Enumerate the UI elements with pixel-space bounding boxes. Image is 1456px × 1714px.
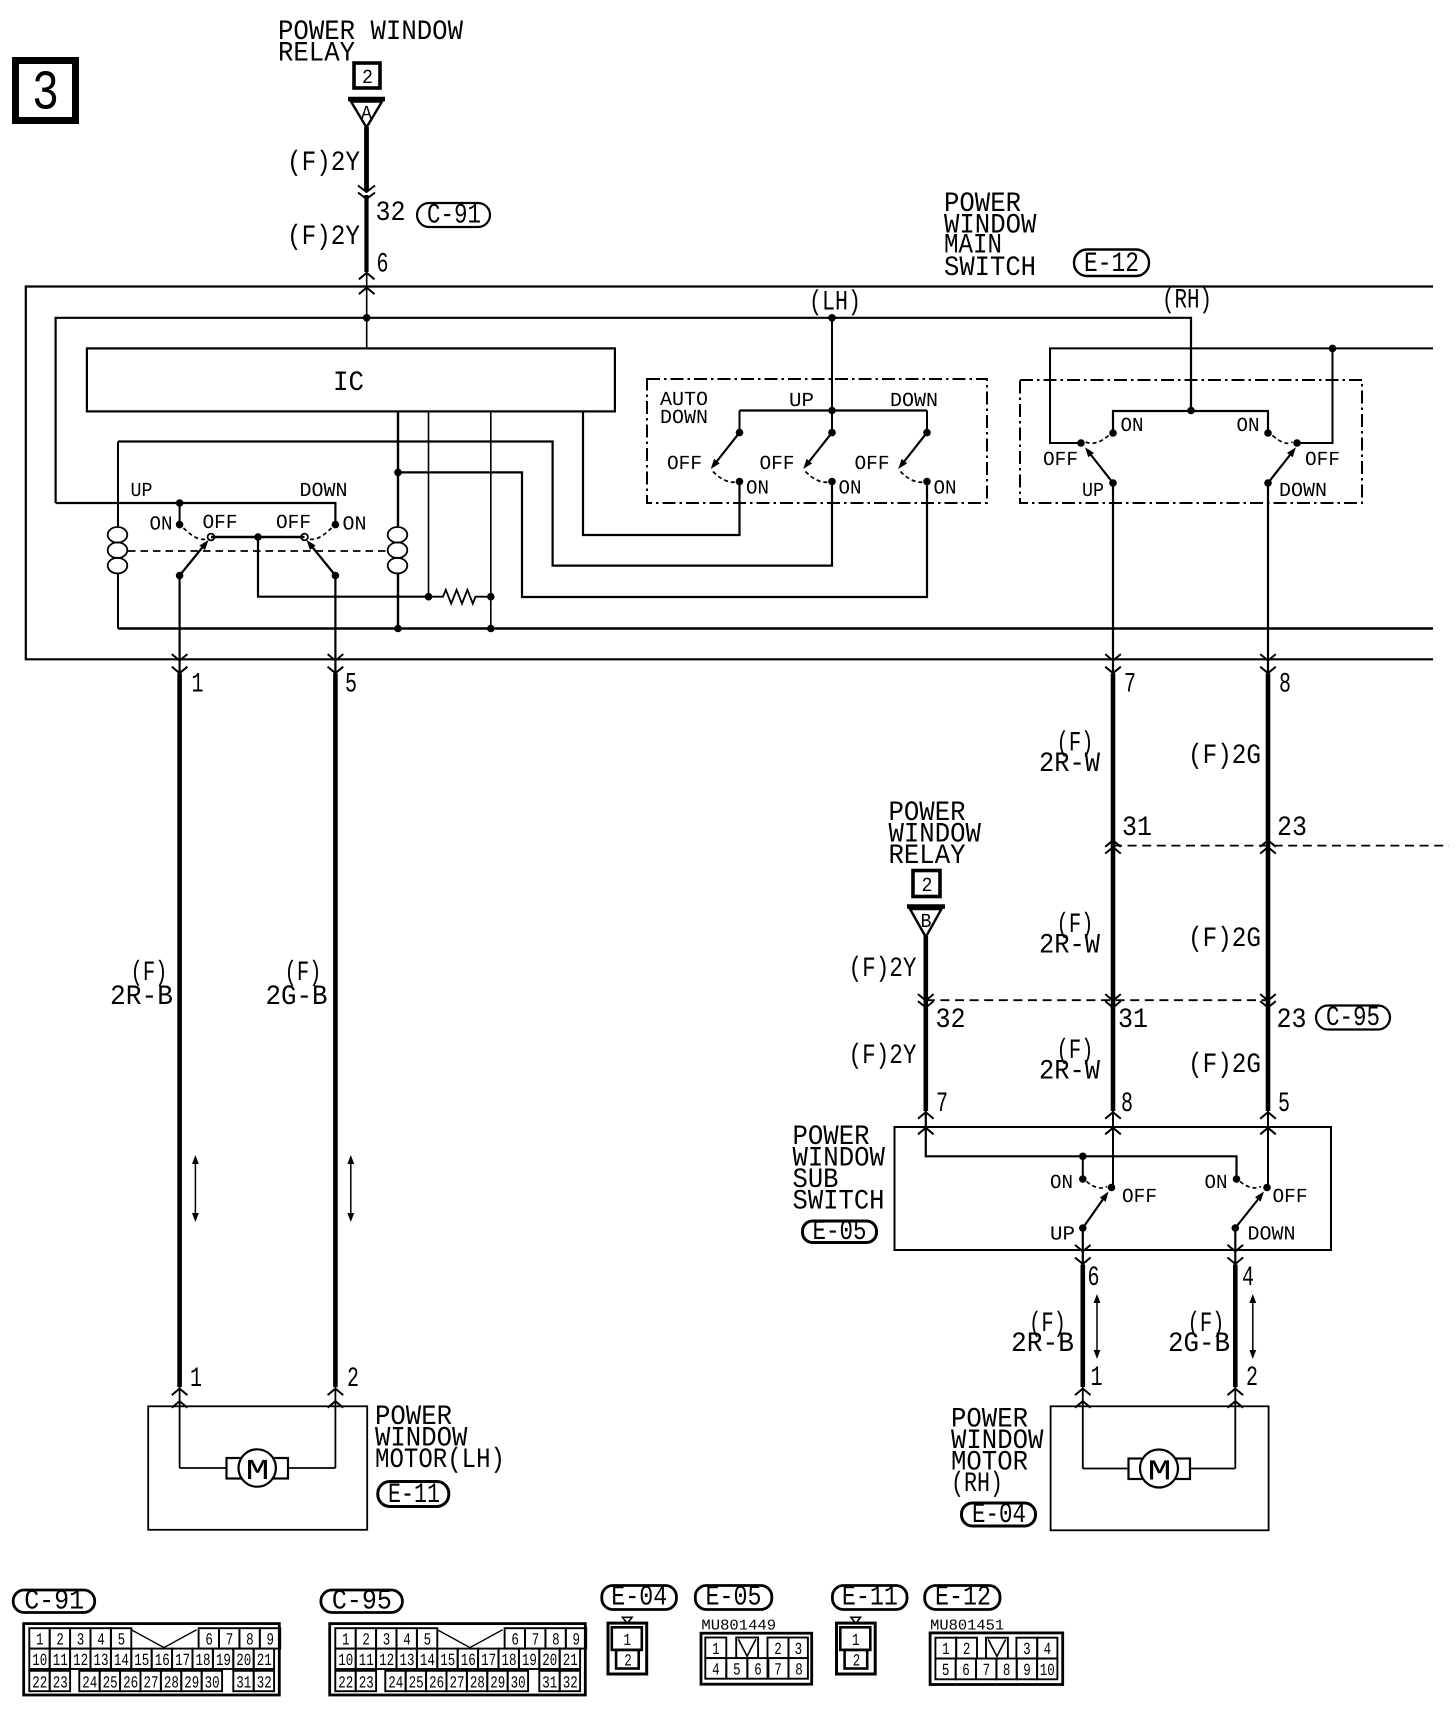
svg-text:30: 30 [205,1674,220,1693]
svg-text:(LH): (LH) [809,288,861,319]
svg-text:31: 31 [1118,1005,1148,1036]
connector E-11 pin box [851,1617,861,1623]
svg-text:SWITCH: SWITCH [793,1187,885,1218]
svg-text:14: 14 [420,1652,435,1671]
svg-text:3: 3 [32,62,59,126]
dashed connector line (31/23) [1113,845,1449,847]
svg-text:ON: ON [1237,415,1260,438]
svg-text:23: 23 [359,1674,374,1693]
svg-text:2R-W: 2R-W [1039,931,1100,962]
ON contact right [332,521,340,529]
svg-text:16: 16 [461,1652,476,1671]
svg-text:C-91: C-91 [24,1587,84,1618]
motor LH symbol [227,1458,242,1479]
svg-text:7: 7 [936,1089,948,1120]
power window motor LH box [148,1406,367,1530]
svg-text:12: 12 [379,1652,394,1671]
svg-text:21: 21 [257,1652,272,1671]
svg-text:1: 1 [1091,1363,1103,1394]
svg-text:(F)2Y: (F)2Y [287,148,360,179]
svg-text:DOWN: DOWN [1279,480,1327,503]
wire bar center tap to resistor [258,537,429,597]
direction arrow right2 [1252,1301,1254,1352]
svg-text:(F)2G: (F)2G [1188,741,1261,772]
motor RH symbol [1129,1459,1144,1480]
junction return line [1329,345,1337,353]
wire 2G-B thick (sub pin4 to motor RH) [1233,1265,1238,1388]
sub switch pin 8 entry chevrons [1105,1112,1121,1119]
junction bar center [254,533,262,541]
svg-text:2R-W: 2R-W [1039,749,1100,780]
ON contact RH-down [1264,429,1272,437]
svg-text:RELAY: RELAY [889,841,966,872]
LH bank top bar [740,409,928,411]
svg-text:32: 32 [376,198,406,229]
IC pin wire to left coil [397,412,399,527]
ON contact sub-down [1233,1175,1241,1183]
svg-text:10: 10 [1040,1662,1055,1681]
svg-text:17: 17 [481,1652,496,1671]
svg-text:25: 25 [103,1674,118,1693]
svg-text:(F)2Y: (F)2Y [287,222,360,253]
svg-text:13: 13 [400,1652,415,1671]
svg-text:11: 11 [359,1652,374,1671]
svg-text:1: 1 [624,1632,632,1651]
motor contact right (pin5) [332,572,340,580]
svg-text:30: 30 [511,1674,526,1693]
svg-text:32: 32 [936,1005,966,1036]
svg-text:E-11: E-11 [388,1480,440,1511]
wire sub pin6 output [1082,1228,1084,1265]
right relay coil [388,527,408,543]
svg-text:C-91: C-91 [427,201,481,232]
svg-text:OFF: OFF [1305,449,1340,472]
lever sub-down [1235,1195,1261,1228]
svg-text:25: 25 [409,1674,424,1693]
direction arrow right1 [1096,1301,1098,1352]
svg-text:7: 7 [774,1661,782,1680]
svg-text:2R-B: 2R-B [110,982,173,1013]
svg-text:22: 22 [338,1674,353,1693]
svg-text:8: 8 [1121,1089,1133,1120]
motor RH pin 1 entry chevrons [1075,1389,1091,1396]
svg-text:20: 20 [542,1652,557,1671]
svg-text:31: 31 [542,1674,557,1693]
svg-text:DOWN: DOWN [660,407,708,430]
wire IC sense to DOWN switch ON (y=472.4) [398,472,927,597]
C-91 stadium label [417,203,490,227]
svg-text:24: 24 [388,1674,403,1693]
svg-text:(F)2G: (F)2G [1188,1050,1261,1081]
svg-text:(F)2G: (F)2G [1188,924,1261,955]
wire stub to sub ON left [1082,1156,1084,1178]
svg-text:7: 7 [983,1662,991,1681]
page number box 3 [16,61,76,121]
svg-text:E-12: E-12 [935,1583,991,1614]
svg-text:2: 2 [922,875,933,898]
power window main switch box (open right edge) [26,287,1433,660]
svg-text:2: 2 [963,1641,971,1660]
pivot RH-up [1077,439,1085,447]
wire motor LH pin1 internal [179,1387,181,1468]
junction UP bus [176,499,184,507]
left relay coil [117,442,119,527]
svg-text:7: 7 [1124,670,1136,701]
svg-text:ON: ON [343,514,367,537]
IC pin wire to auto-down switch [583,412,740,536]
motor contact left (pin1) [176,572,184,580]
svg-text:5: 5 [942,1662,950,1681]
relay B triangle terminal [907,904,945,908]
svg-text:10: 10 [32,1652,47,1671]
svg-text:2G-B: 2G-B [1168,1329,1230,1360]
svg-text:2: 2 [1246,1363,1258,1394]
svg-text:C-95: C-95 [1326,1003,1380,1034]
connector C-95 pin table [330,1624,586,1695]
svg-text:29: 29 [184,1674,199,1693]
wire RH pivots to return line y=348 [1050,348,1433,443]
svg-text:SWITCH: SWITCH [944,253,1036,284]
wire sub pin4 output [1234,1228,1236,1265]
connector E-05 stadium label [695,1586,772,1610]
svg-text:2: 2 [347,1364,359,1395]
common bar between pivots [211,536,305,538]
svg-text:E-11: E-11 [842,1583,898,1614]
wire motor RH pin2 internal [1234,1387,1236,1469]
svg-text:19: 19 [522,1652,537,1671]
svg-text:OFF: OFF [760,453,795,476]
svg-text:ON: ON [1050,1172,1073,1195]
connector E-11 stadium label [832,1586,907,1610]
svg-text:ON: ON [934,478,957,501]
svg-text:23: 23 [53,1674,68,1693]
wire pin8 output [1267,483,1269,674]
svg-text:8: 8 [795,1661,803,1680]
DOWN output sub [1232,1224,1240,1232]
svg-text:8: 8 [1279,670,1291,701]
chevrons at 23 crossing [1260,840,1276,847]
lever RH-down [1268,451,1294,484]
svg-text:OFF: OFF [1273,1186,1308,1209]
svg-text:DOWN: DOWN [300,480,348,503]
svg-text:E-04: E-04 [611,1583,667,1614]
svg-text:MU801449: MU801449 [701,1617,776,1634]
svg-text:2R-W: 2R-W [1039,1057,1100,1088]
svg-text:28: 28 [164,1674,179,1693]
svg-text:32: 32 [563,1674,578,1693]
power window sub switch box [895,1127,1332,1250]
svg-text:A: A [361,103,372,126]
wire stub to left ON contact [179,503,181,523]
svg-text:23: 23 [1277,813,1307,844]
svg-text:ON: ON [746,478,769,501]
svg-text:3: 3 [795,1641,803,1660]
ON contact sub-up [1079,1175,1087,1183]
mechanical link dashed line [128,550,387,552]
wire 2G thick (pin8 to sub switch pin5) [1266,674,1271,1112]
resistor [429,590,491,604]
svg-text:E-04: E-04 [972,1500,1026,1531]
svg-text:E-12: E-12 [1084,249,1139,280]
UP supply bus (y=503) [56,503,336,523]
lever sub-up [1083,1195,1106,1228]
svg-text:27: 27 [449,1674,464,1693]
svg-text:(RH): (RH) [1162,286,1212,317]
connector C-95 stadium label [321,1590,403,1613]
wire 2G-B thick (pin5 to motor LH) [333,674,338,1388]
connector E-04 pin box [623,1617,633,1623]
svg-text:C-95: C-95 [332,1587,392,1618]
svg-text:2R-B: 2R-B [1011,1329,1074,1360]
svg-text:22: 22 [32,1674,47,1693]
pin 7 exit connector chevrons [1105,654,1121,661]
svg-text:OFF: OFF [1122,1186,1157,1209]
svg-text:DOWN: DOWN [1248,1224,1296,1247]
svg-text:M: M [246,1455,270,1488]
svg-text:1: 1 [190,1364,202,1395]
junction LH riser [828,314,836,322]
svg-text:31: 31 [1122,813,1152,844]
svg-text:ON: ON [1121,415,1144,438]
wire pin7 into bus [926,1111,1237,1178]
IC pin wire to resistor left [428,412,430,597]
chevrons at 31 crossing (C-95) [1105,994,1121,1001]
LH bank up switch [831,411,833,432]
internal supply wire (pin6 bus, y=318) [56,318,1191,503]
svg-text:23: 23 [1277,1005,1307,1036]
sub switch pin 7 entry chevrons [918,1112,934,1119]
svg-text:6: 6 [754,1661,762,1680]
svg-text:1: 1 [942,1641,950,1660]
LH bank down switch [926,411,928,432]
svg-text:ON: ON [839,478,862,501]
pivot sub-up [1108,1184,1116,1192]
wire 2R-B thick (sub pin6 to motor RH) [1081,1265,1086,1388]
svg-text:4: 4 [1044,1641,1052,1660]
pivot RH-down [1293,439,1301,447]
RH switch dashed box [1020,380,1362,503]
svg-text:RELAY: RELAY [278,39,355,70]
IC box [87,348,615,411]
pivot contact right [301,534,308,541]
svg-text:27: 27 [143,1674,158,1693]
auto down dashed box [647,379,987,503]
DOWN output contact [1264,479,1272,487]
svg-text:OFF: OFF [203,512,238,535]
svg-text:6: 6 [377,250,389,281]
junction bar / riser [828,407,836,415]
svg-text:UP: UP [1050,1224,1075,1247]
svg-text:OFF: OFF [276,512,311,535]
dashed arc sub-down [1240,1182,1261,1188]
svg-text:24: 24 [82,1674,97,1693]
svg-text:9: 9 [1023,1662,1031,1681]
svg-text:3: 3 [1023,1641,1031,1660]
relay B terminal box 2 [913,871,940,897]
pin 1 exit connector chevrons [172,654,188,661]
svg-text:5: 5 [733,1661,741,1680]
svg-text:UP: UP [1082,480,1104,503]
svg-text:10: 10 [338,1652,353,1671]
svg-text:(F)2Y: (F)2Y [849,954,917,985]
svg-text:ON: ON [150,514,173,537]
svg-text:15: 15 [440,1652,455,1671]
ON contact left [176,521,184,529]
direction arrow left2 [350,1162,352,1215]
svg-text:17: 17 [175,1652,190,1671]
wire motor RH pin1 internal [1082,1387,1084,1469]
lever left switch [180,543,206,576]
svg-text:20: 20 [236,1652,251,1671]
svg-text:(RH): (RH) [951,1469,1003,1500]
svg-text:18: 18 [502,1652,517,1671]
svg-text:OFF: OFF [1043,449,1078,472]
chevrons at 32 crossing [918,994,934,1001]
connector E-04 stadium label [602,1586,677,1610]
dashed arc right switch [308,528,332,539]
pivot contact left [208,534,215,541]
E-04 stadium label [962,1503,1036,1526]
E-12 stadium label (top) [1074,250,1149,277]
wire pin 6 into main switch [366,272,368,348]
relay A terminal box 2 [354,63,380,88]
svg-text:2: 2 [853,1652,861,1671]
UP output sub [1079,1224,1087,1232]
wire pin8 to sub-up pivot [1112,1111,1114,1186]
junction pin6 / internal bus [363,314,371,322]
svg-text:32: 32 [257,1674,272,1693]
UP output contact [1109,479,1117,487]
dashed arc left switch [184,528,208,539]
dashed arc sub-up [1087,1182,1108,1188]
dashed arc RH-up [1086,436,1109,444]
connector C-91 splice chevrons [358,186,375,193]
pivot sub-down [1263,1184,1271,1192]
junction RH bar / riser [1187,407,1195,415]
svg-text:(F)2Y: (F)2Y [849,1041,917,1072]
svg-text:13: 13 [94,1652,109,1671]
svg-text:M: M [1148,1456,1172,1489]
relay A triangle terminal [348,97,385,101]
IC pin wire to resistor right / bus [490,412,492,629]
dashed connector line C-95 [926,999,1268,1001]
svg-text:1: 1 [712,1641,720,1660]
E-05 stadium label [803,1221,877,1243]
wire pin5 to sub-down pivot [1267,1111,1269,1186]
wire coil top loop to UP switch ON (y=441.5) [118,442,832,566]
svg-text:11: 11 [53,1652,68,1671]
svg-text:18: 18 [196,1652,211,1671]
svg-text:4: 4 [712,1661,720,1680]
svg-text:IC: IC [333,368,364,399]
pin 5 exit connector chevrons [328,654,344,661]
sub pin 6 exit chevrons [1075,1245,1091,1252]
junction coil line [394,469,402,477]
direction arrow left1 [194,1162,196,1215]
junction resistor left [425,593,433,601]
svg-text:19: 19 [216,1652,231,1671]
wire pin5 output [334,576,336,675]
svg-text:5: 5 [1278,1089,1290,1120]
connector C-91 pin table [24,1624,280,1695]
svg-text:OFF: OFF [667,453,702,476]
svg-text:28: 28 [470,1674,485,1693]
lever RH-up [1088,451,1114,484]
svg-text:B: B [921,911,932,934]
svg-text:26: 26 [429,1674,444,1693]
pin 8 exit connector chevrons [1260,654,1276,661]
wire LH riser [831,318,833,411]
chevrons at 31 crossing [1105,840,1121,847]
svg-text:E-05: E-05 [813,1217,867,1248]
svg-text:E-05: E-05 [706,1583,762,1614]
svg-text:1: 1 [192,670,204,701]
svg-text:29: 29 [490,1674,505,1693]
svg-text:OFF: OFF [855,453,890,476]
wire relay B down to sub switch [923,936,928,1111]
RH bank top bar [1113,411,1268,433]
svg-text:6: 6 [1088,1263,1100,1294]
svg-text:16: 16 [155,1652,170,1671]
ON contact RH-up [1109,429,1117,437]
svg-text:6: 6 [962,1662,970,1681]
svg-text:2: 2 [774,1641,782,1660]
wire pin1 output [179,576,181,675]
motor LH pin 1 entry chevrons [172,1389,188,1396]
svg-text:1: 1 [852,1632,860,1651]
svg-text:2G-B: 2G-B [266,982,328,1013]
wire 2R-W thick (pin7 to sub switch pin8) [1111,674,1116,1112]
svg-text:21: 21 [563,1652,578,1671]
pin 6 connector chevrons [359,273,375,280]
svg-text:31: 31 [236,1674,251,1693]
connector E-05 pin table [701,1633,812,1684]
svg-text:14: 14 [114,1652,129,1671]
dashed arc RH-down [1273,436,1293,444]
wire relay A to splice 32 [364,127,369,191]
svg-text:26: 26 [123,1674,138,1693]
wire 2R-B thick (pin1 to motor LH) [177,674,182,1388]
svg-text:2: 2 [362,67,373,90]
junction sub bus [1079,1153,1087,1161]
svg-text:2: 2 [624,1652,632,1671]
connector E-12 stadium label [925,1586,1000,1610]
svg-text:12: 12 [73,1652,88,1671]
E-11 stadium label [378,1482,449,1507]
motor LH pin 2 entry chevrons [328,1389,344,1396]
C-95 stadium label [1316,1006,1390,1030]
motor RH pin 2 entry chevrons [1228,1389,1244,1396]
LH bank auto-down switch [739,411,741,432]
junction resistor leg to bus [487,625,495,633]
junction resistor right [487,593,495,601]
wire pin7 output [1112,483,1114,674]
svg-text:UP: UP [131,480,153,503]
svg-text:4: 4 [1242,1263,1254,1294]
chevrons at 23 crossing (C-95) [1260,994,1276,1001]
lever right switch [309,543,335,576]
sub switch pin 5 entry chevrons [1260,1112,1276,1119]
svg-text:ON: ON [1205,1172,1228,1195]
junction coil to bus [394,625,402,633]
wire motor LH pin2 internal [334,1387,336,1468]
connector C-91 stadium label [13,1590,95,1613]
svg-text:5: 5 [345,670,357,701]
connector E-12 pin table [930,1633,1063,1685]
svg-text:8: 8 [1003,1662,1011,1681]
ground bus (y=628.5) [118,627,1433,629]
wire return to RH-down pivot [1297,348,1333,443]
